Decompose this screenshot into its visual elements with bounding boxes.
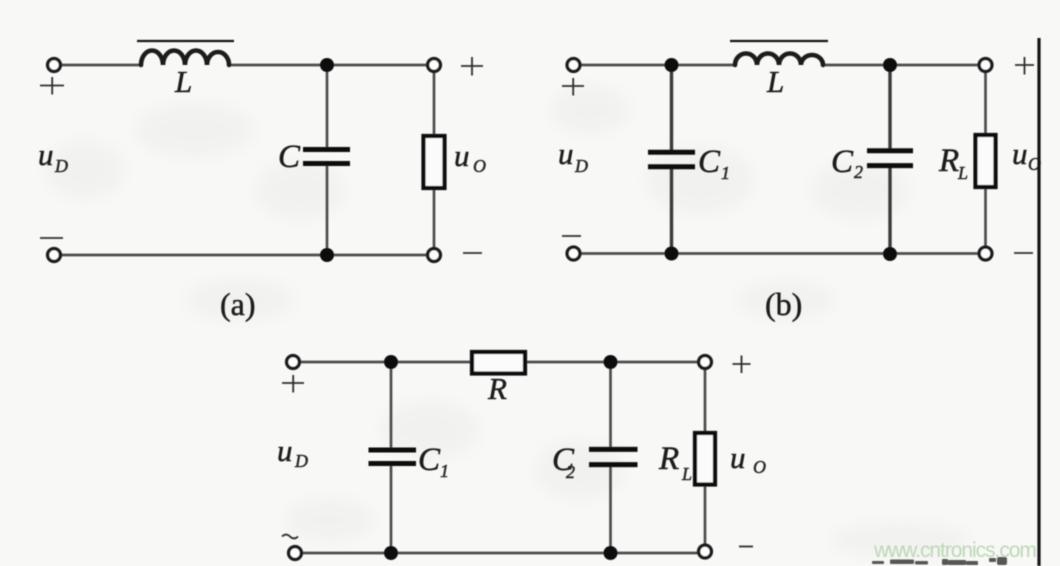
svg-text:L: L [681,464,692,484]
svg-text:C: C [698,144,721,180]
svg-text:L: L [957,163,968,183]
svg-text:(a): (a) [220,286,256,322]
svg-text:R: R [487,371,507,406]
svg-text:C: C [831,144,854,180]
svg-text:D: D [294,451,308,471]
svg-text:u: u [38,137,54,172]
svg-text:u: u [277,433,293,468]
svg-text:1: 1 [721,163,730,183]
svg-text:(b): (b) [765,286,802,322]
svg-text:u: u [558,136,574,171]
svg-text:R: R [658,441,679,477]
svg-text:L: L [766,64,784,99]
svg-text:u: u [454,138,470,173]
svg-text:u: u [1012,136,1028,171]
svg-text:u: u [730,440,746,475]
svg-text:O: O [473,156,486,176]
svg-text:1: 1 [440,461,449,481]
svg-text:2: 2 [854,162,863,182]
svg-text:O: O [753,457,766,477]
svg-text:C: C [418,442,441,478]
svg-text:L: L [174,64,192,99]
svg-text:D: D [574,156,588,176]
svg-text:www.cntronics.com: www.cntronics.com [873,539,1036,562]
svg-text:2: 2 [566,462,575,482]
svg-text:R: R [938,143,959,179]
svg-text:D: D [54,156,68,176]
svg-text:C: C [278,139,301,175]
